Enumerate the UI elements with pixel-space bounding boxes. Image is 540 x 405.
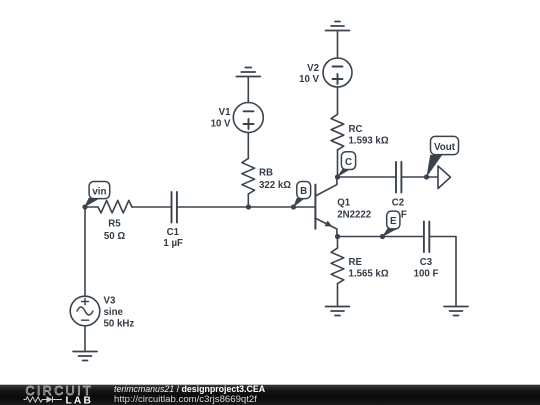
footer black bar bbox=[0, 385, 540, 405]
ground for RE bbox=[326, 307, 350, 316]
wire C1 to transistor base bbox=[177, 206, 315, 208]
wire V3 to ground bbox=[84, 326, 86, 352]
label RC value bbox=[349, 124, 389, 147]
label V1 value bbox=[211, 107, 232, 129]
wire collector to C2 bbox=[338, 176, 396, 178]
label C3 value bbox=[414, 257, 439, 279]
svg-text:10 V: 10 V bbox=[211, 119, 231, 130]
resistor RE bbox=[331, 248, 344, 284]
svg-text:1.565 kΩ: 1.565 kΩ bbox=[349, 269, 389, 280]
junction dot RB-rail bbox=[246, 204, 251, 209]
label RE value bbox=[349, 257, 389, 279]
label RB value bbox=[259, 168, 291, 191]
resistor R5 bbox=[98, 200, 132, 213]
svg-text:Vout: Vout bbox=[434, 142, 456, 153]
svg-text:RE: RE bbox=[349, 257, 363, 268]
svg-text:322 kΩ: 322 kΩ bbox=[259, 180, 291, 191]
svg-text:RB: RB bbox=[259, 168, 273, 179]
wire RC to collector node bbox=[337, 150, 339, 177]
wire C2 to output bbox=[402, 176, 438, 178]
wire vin node down to V3 bbox=[84, 207, 86, 296]
footer credit text bbox=[114, 384, 266, 405]
svg-text:R5: R5 bbox=[108, 219, 121, 230]
junction dot Vout node bbox=[424, 174, 429, 179]
ground right bbox=[444, 307, 468, 316]
svg-text:Q1: Q1 bbox=[337, 197, 351, 208]
svg-text:V1: V1 bbox=[219, 107, 231, 118]
svg-text:V3: V3 bbox=[104, 296, 116, 307]
wire ground to V2 bbox=[337, 31, 339, 59]
svg-text:C: C bbox=[345, 157, 352, 168]
svg-text:C1: C1 bbox=[167, 227, 180, 238]
label V3 value bbox=[104, 296, 135, 330]
svg-text:terimcmanus21 / designproject3: terimcmanus21 / designproject3.CEA bbox=[114, 384, 266, 394]
ground for V3 bbox=[73, 352, 97, 361]
node flag C bbox=[337, 152, 356, 178]
output port triangle bbox=[438, 166, 451, 189]
svg-text:100 F: 100 F bbox=[414, 269, 439, 280]
label Q1 value bbox=[337, 197, 371, 220]
voltage source V3 bbox=[70, 296, 100, 326]
label C1 value bbox=[163, 227, 183, 249]
svg-text:C2: C2 bbox=[392, 198, 404, 209]
label V2 value bbox=[299, 63, 319, 85]
voltage source V1 bbox=[233, 103, 263, 133]
wire ground to V1 bbox=[247, 77, 249, 103]
node flag vin bbox=[84, 182, 110, 208]
capacitor C1 bbox=[172, 192, 177, 223]
label C2 value bbox=[392, 198, 407, 221]
svg-text:sine: sine bbox=[104, 307, 124, 318]
label R5 value bbox=[104, 219, 125, 243]
svg-text:RC: RC bbox=[349, 124, 363, 135]
resistor RB bbox=[242, 158, 255, 194]
wire emitter rail bbox=[338, 236, 424, 238]
CircuitLab logo bbox=[24, 384, 94, 405]
capacitor C3 bbox=[424, 222, 429, 253]
resistor RC bbox=[331, 114, 344, 150]
wire main rail left segment bbox=[85, 206, 98, 208]
junction dot emitter node bbox=[335, 234, 340, 239]
svg-text:C3: C3 bbox=[420, 257, 433, 268]
voltage source V2 bbox=[323, 58, 352, 87]
svg-text:1.593 kΩ: 1.593 kΩ bbox=[349, 136, 389, 147]
wire V1 to RB bbox=[247, 133, 249, 159]
node flag Vout bbox=[426, 136, 458, 177]
transistor Q1 bbox=[315, 177, 337, 237]
junction dot node E bbox=[380, 234, 385, 239]
svg-text:2N2222: 2N2222 bbox=[337, 209, 371, 220]
wire C3 to right ground bbox=[430, 237, 456, 307]
wire RE to ground bbox=[337, 284, 339, 307]
junction dot collector node C bbox=[335, 174, 340, 179]
svg-text:LAB: LAB bbox=[66, 395, 94, 405]
svg-text:V2: V2 bbox=[307, 63, 319, 74]
svg-text:vin: vin bbox=[92, 186, 106, 197]
junction dot node vin bbox=[82, 204, 87, 209]
svg-text:50 kHz: 50 kHz bbox=[104, 319, 135, 330]
svg-text:B: B bbox=[300, 186, 307, 197]
svg-text:50 Ω: 50 Ω bbox=[104, 231, 125, 242]
node flag B bbox=[293, 182, 310, 208]
node flag E bbox=[382, 211, 400, 237]
ground for V2 (above, inverted) bbox=[326, 22, 350, 31]
capacitor C2 bbox=[396, 162, 401, 193]
svg-text:E: E bbox=[390, 216, 397, 227]
ground for V1 (above, inverted) bbox=[236, 68, 260, 77]
svg-text:http://circuitlab.com/c3rjs866: http://circuitlab.com/c3rjs8669qt2f bbox=[114, 394, 257, 405]
wire emitter to RE bbox=[337, 237, 339, 249]
wire V2 to RC bbox=[337, 87, 339, 114]
junction dot node B bbox=[291, 204, 296, 209]
svg-text:1 µF: 1 µF bbox=[163, 238, 183, 249]
svg-text:10 V: 10 V bbox=[299, 74, 319, 85]
wire RB to rail bbox=[247, 194, 249, 207]
wire R5 to C1 bbox=[132, 206, 171, 208]
